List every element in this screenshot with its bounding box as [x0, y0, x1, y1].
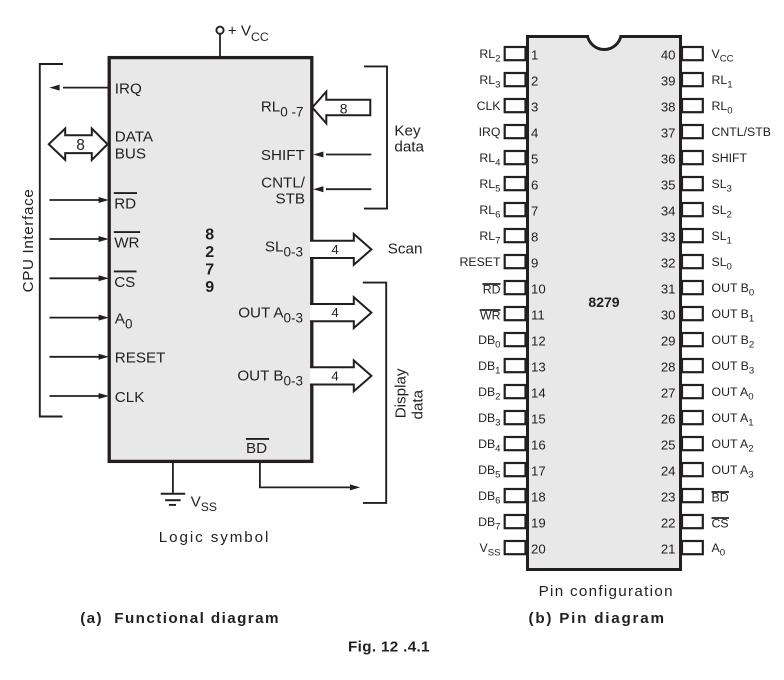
svg-text:RD: RD [114, 196, 136, 213]
svg-text:13: 13 [531, 359, 546, 374]
svg-text:11: 11 [531, 307, 545, 322]
svg-text:26: 26 [661, 411, 676, 426]
svg-text:Display: Display [392, 368, 409, 418]
svg-text:4: 4 [531, 125, 538, 140]
pin 8 (RL7) [479, 229, 538, 247]
svg-text:14: 14 [531, 385, 546, 400]
svg-text:OUT A1: OUT A1 [712, 411, 754, 429]
overline for CS [114, 270, 137, 272]
pin 30 (OUT B1) [661, 307, 754, 325]
svg-text:OUT A0: OUT A0 [712, 385, 754, 403]
svg-text:SL1: SL1 [712, 229, 732, 247]
svg-text:32: 32 [661, 255, 676, 270]
pin 38 (RL0) [661, 99, 733, 117]
svg-text:9: 9 [205, 279, 214, 296]
svg-text:SL0: SL0 [712, 255, 732, 273]
svg-text:OUT A3: OUT A3 [712, 463, 754, 481]
pin 37 (CNTL/STB) [661, 125, 771, 141]
svg-text:data: data [394, 139, 424, 156]
svg-text:7: 7 [205, 262, 214, 279]
svg-text:STB: STB [275, 191, 305, 208]
pin 21 (A0) [661, 541, 725, 559]
svg-text:VSS: VSS [191, 494, 217, 514]
svg-text:SL3: SL3 [712, 177, 732, 195]
pin SL0-3: scan bus arrow out (4 lines) [310, 234, 371, 265]
svg-text:35: 35 [661, 177, 676, 192]
svg-text:RL5: RL5 [479, 177, 500, 195]
pin CNTL/STB: input wire with left arrow [313, 186, 371, 192]
svg-text:VCC: VCC [712, 47, 734, 65]
svg-text:CNTL/: CNTL/ [261, 174, 306, 191]
svg-text:(a) Functional diagram: (a) Functional diagram [80, 610, 280, 627]
pin 5 (RL4) [479, 151, 538, 169]
svg-text:VSS: VSS [479, 541, 500, 559]
svg-text:36: 36 [661, 151, 676, 166]
IC U1: 8279 logic symbol body [109, 58, 312, 462]
pin 16 (DB4) [478, 437, 546, 455]
svg-text:RL2: RL2 [479, 47, 500, 65]
svg-text:DB0: DB0 [478, 333, 500, 351]
svg-text:1: 1 [531, 47, 538, 62]
pin 35 (SL3) [661, 177, 732, 195]
pin IRQ: output wire with left arrow [49, 85, 109, 91]
svg-text:6: 6 [531, 177, 538, 192]
svg-text:2: 2 [205, 244, 214, 261]
Display data bracket [363, 283, 386, 503]
svg-text:2: 2 [531, 73, 538, 88]
pin 29 (OUT B2) [661, 333, 754, 351]
pin 26 (OUT A1) [661, 411, 754, 429]
pin 11 (WR) [480, 307, 545, 323]
svg-text:8: 8 [205, 227, 214, 244]
svg-text:CLK: CLK [115, 389, 145, 406]
pin SHIFT: input wire with left arrow [313, 152, 371, 158]
svg-text:BD: BD [246, 440, 267, 457]
overline for WR [114, 231, 140, 233]
svg-text:15: 15 [531, 411, 546, 426]
svg-text:DB1: DB1 [478, 359, 500, 377]
pin 6 (RL5) [479, 177, 538, 195]
pin 14 (DB2) [478, 385, 546, 403]
svg-text:SHIFT: SHIFT [261, 147, 305, 164]
svg-text:CNTL/STB: CNTL/STB [712, 125, 771, 139]
pin-1 index notch [587, 34, 621, 50]
svg-text:DB4: DB4 [478, 437, 501, 455]
svg-text:+ VCC: + VCC [228, 22, 269, 44]
pin 17 (DB5) [478, 463, 546, 481]
pin 20 (VSS) [479, 541, 545, 559]
svg-text:8279: 8279 [588, 294, 619, 310]
svg-text:RESET: RESET [460, 255, 501, 269]
Key data bracket [364, 66, 387, 208]
svg-text:DB5: DB5 [478, 463, 500, 481]
pin 33 (SL1) [661, 229, 732, 247]
svg-text:8: 8 [76, 137, 85, 154]
pin 1 (RL2) [479, 47, 538, 65]
pin 19 (DB7) [478, 515, 546, 533]
ground symbol [161, 494, 186, 505]
svg-text:Fig. 12 .4.1: Fig. 12 .4.1 [348, 639, 430, 656]
Vcc power terminal [216, 27, 223, 56]
pin RL0-7: bus arrow into chip (8 lines) [312, 92, 370, 124]
pin 40 (VCC) [661, 47, 734, 65]
svg-text:29: 29 [661, 333, 676, 348]
pin RESET: input wire with right arrow [50, 354, 109, 360]
svg-text:RL7: RL7 [479, 229, 500, 247]
svg-text:DB2: DB2 [478, 385, 500, 403]
svg-text:Logic symbol: Logic symbol [159, 529, 270, 546]
pin 4 (IRQ) [479, 125, 539, 141]
svg-text:IRQ: IRQ [479, 125, 501, 139]
pin 7 (RL6) [479, 203, 538, 221]
svg-text:DB6: DB6 [478, 489, 500, 507]
svg-text:31: 31 [661, 281, 676, 296]
svg-text:A0: A0 [712, 541, 726, 559]
pin 34 (SL2) [661, 203, 732, 221]
svg-text:Key: Key [394, 122, 421, 139]
pin A0: input wire with right arrow [50, 315, 109, 321]
svg-text:37: 37 [661, 125, 676, 140]
svg-text:27: 27 [661, 385, 676, 400]
svg-text:CLK: CLK [477, 99, 502, 113]
Vss ground wire [172, 463, 174, 493]
svg-text:OUT B0: OUT B0 [712, 281, 755, 299]
svg-text:17: 17 [531, 463, 546, 478]
pin BD: output wire down then right with arrow [260, 463, 360, 490]
pin 32 (SL0) [661, 255, 732, 273]
svg-text:24: 24 [661, 463, 676, 478]
pin 9 (RESET) [460, 255, 539, 271]
svg-text:8: 8 [340, 101, 348, 117]
svg-text:22: 22 [661, 515, 676, 530]
svg-text:CPU Interface: CPU Interface [20, 189, 37, 293]
svg-text:SHIFT: SHIFT [712, 151, 748, 165]
svg-text:RESET: RESET [115, 350, 166, 367]
svg-text:4: 4 [331, 242, 338, 257]
svg-text:WR: WR [114, 235, 139, 252]
pin 31 (OUT B0) [661, 281, 754, 299]
DATA BUS bidirectional bus arrow (8 bits) [49, 129, 108, 160]
svg-text:39: 39 [661, 73, 676, 88]
svg-text:9: 9 [531, 255, 538, 270]
svg-text:12: 12 [531, 333, 546, 348]
svg-text:5: 5 [531, 151, 538, 166]
svg-text:Pin configuration: Pin configuration [539, 583, 674, 600]
svg-text:34: 34 [661, 203, 676, 218]
pin WR: input wire with right arrow [50, 236, 109, 242]
svg-text:3: 3 [531, 99, 538, 114]
pin 12 (DB0) [478, 333, 546, 351]
svg-text:IRQ: IRQ [115, 80, 142, 97]
svg-text:7: 7 [531, 203, 538, 218]
pin 13 (DB1) [478, 359, 546, 377]
svg-text:OUT B1: OUT B1 [712, 307, 755, 325]
svg-text:DB3: DB3 [478, 411, 500, 429]
svg-text:8: 8 [531, 229, 538, 244]
svg-text:DATA: DATA [115, 129, 154, 146]
svg-text:4: 4 [331, 305, 338, 320]
pin 24 (OUT A3) [661, 463, 754, 481]
svg-text:19: 19 [531, 515, 546, 530]
svg-text:20: 20 [531, 541, 546, 556]
8279 part number (stacked) [205, 227, 214, 296]
pin 39 (RL1) [661, 73, 733, 91]
svg-text:30: 30 [661, 307, 676, 322]
svg-text:Scan: Scan [388, 240, 423, 257]
svg-text:CS: CS [114, 274, 135, 291]
pin 10 (RD) [482, 281, 545, 297]
IC U2: 8279 DIP-40 package body [528, 37, 681, 570]
svg-text:38: 38 [661, 99, 676, 114]
svg-text:RL4: RL4 [479, 151, 501, 169]
svg-text:data: data [409, 389, 426, 419]
svg-text:40: 40 [661, 47, 676, 62]
svg-text:25: 25 [661, 437, 676, 452]
svg-text:10: 10 [531, 281, 546, 296]
pin RD: input wire with right arrow [50, 197, 109, 203]
pin 23 (BD) [661, 489, 729, 505]
svg-text:SL2: SL2 [712, 203, 732, 221]
svg-text:(b) Pin diagram: (b) Pin diagram [529, 610, 666, 627]
pin OUT A0-3: display bus arrow out (4 lines) [310, 297, 371, 328]
pin 25 (OUT A2) [661, 437, 754, 455]
pin CS: input wire with right arrow [50, 275, 109, 281]
svg-text:OUT B3: OUT B3 [712, 359, 755, 377]
svg-text:BUS: BUS [115, 146, 146, 163]
overline for RD [114, 192, 137, 194]
svg-text:DB7: DB7 [478, 515, 500, 533]
svg-text:4: 4 [331, 369, 338, 384]
svg-text:21: 21 [661, 541, 676, 556]
svg-text:RL0: RL0 [712, 99, 733, 117]
pin 15 (DB3) [478, 411, 546, 429]
overline for BD [246, 438, 269, 440]
svg-text:RL6: RL6 [479, 203, 500, 221]
pin OUT B0-3: display bus arrow out (4 lines) [310, 361, 371, 392]
pin 2 (RL3) [479, 73, 538, 91]
svg-text:23: 23 [661, 489, 676, 504]
svg-text:18: 18 [531, 489, 546, 504]
pin 28 (OUT B3) [661, 359, 754, 377]
pin 36 (SHIFT) [661, 151, 748, 167]
pin 18 (DB6) [478, 489, 546, 507]
pin 3 (CLK) [477, 99, 539, 115]
pin 22 (CS) [661, 515, 729, 531]
svg-text:33: 33 [661, 229, 676, 244]
CPU Interface bracket [40, 64, 63, 417]
svg-text:RL3: RL3 [479, 73, 500, 91]
pin CLK: input wire with right arrow [50, 393, 109, 399]
svg-text:RL1: RL1 [712, 73, 733, 91]
svg-text:16: 16 [531, 437, 546, 452]
svg-text:OUT B2: OUT B2 [712, 333, 755, 351]
svg-text:OUT A2: OUT A2 [712, 437, 754, 455]
pin 27 (OUT A0) [661, 385, 754, 403]
svg-text:28: 28 [661, 359, 676, 374]
